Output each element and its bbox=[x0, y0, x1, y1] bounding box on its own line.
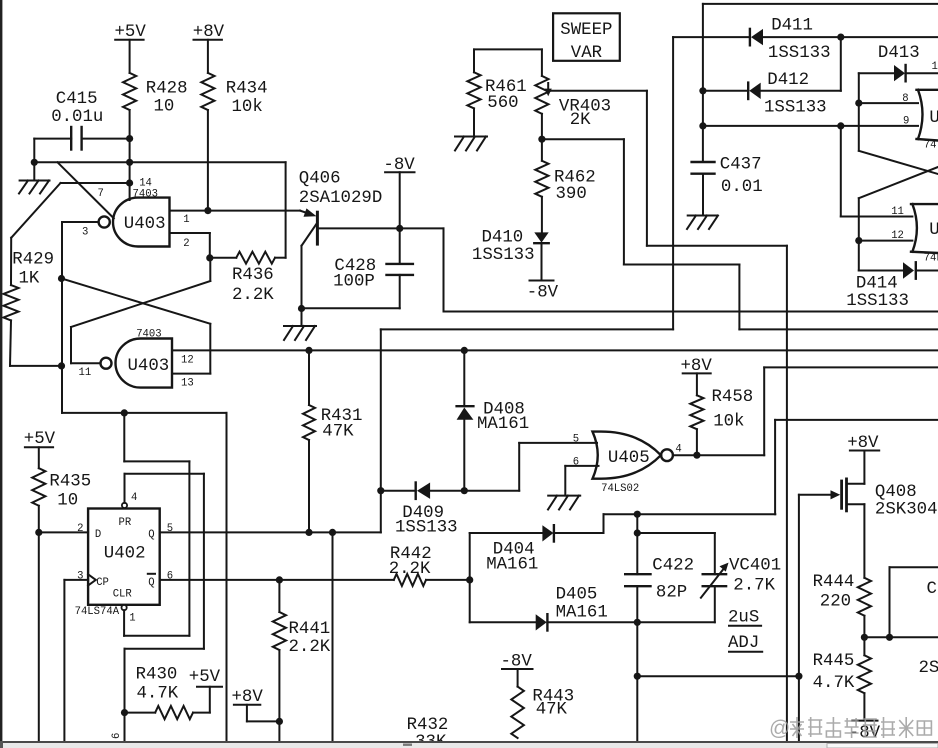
scrollbar area bbox=[0, 741, 938, 748]
svg-text:MA161: MA161 bbox=[477, 415, 529, 434]
svg-text:14: 14 bbox=[932, 61, 938, 73]
wire U403b pin12 long net bbox=[172, 349, 938, 351]
U402 pin5 Q wire bbox=[160, 523, 381, 535]
svg-text:2.7K: 2.7K bbox=[733, 577, 775, 596]
node y676 right bbox=[795, 673, 802, 680]
wire pin12 bbox=[859, 230, 913, 242]
svg-text:VAR: VAR bbox=[571, 44, 602, 63]
node y676 left bbox=[634, 673, 641, 680]
svg-text:C437: C437 bbox=[720, 156, 762, 175]
resistor R435 10 bbox=[32, 468, 91, 510]
resistor R430 4.7K bbox=[125, 666, 210, 720]
svg-text:MA161: MA161 bbox=[556, 604, 608, 623]
svg-text:4.7K: 4.7K bbox=[813, 674, 855, 693]
svg-text:R430: R430 bbox=[136, 666, 178, 685]
svg-text:C422: C422 bbox=[652, 557, 694, 576]
node pin2/R436 bbox=[206, 254, 213, 261]
sheet left border bbox=[0, 0, 2, 741]
svg-text:10: 10 bbox=[57, 492, 78, 511]
svg-text:SWEEP: SWEEP bbox=[560, 21, 612, 40]
power +8V (R458) bbox=[681, 357, 713, 395]
node R444/R445 bbox=[861, 634, 868, 641]
svg-text:U402: U402 bbox=[104, 545, 146, 564]
diode D404 MA161 bbox=[470, 525, 604, 574]
wire pin11 bbox=[841, 126, 913, 218]
watermark bbox=[769, 717, 931, 740]
svg-text:D414: D414 bbox=[856, 275, 898, 294]
svg-text:47K: 47K bbox=[322, 423, 354, 442]
svg-text:390: 390 bbox=[556, 185, 587, 204]
diode D413 1SS133 bbox=[859, 44, 938, 81]
wire cross diag A (right) bbox=[859, 151, 938, 174]
svg-text:Q: Q bbox=[148, 577, 154, 589]
svg-text:R441: R441 bbox=[289, 620, 331, 639]
svg-text:2SK304: 2SK304 bbox=[875, 501, 938, 520]
svg-text:10: 10 bbox=[154, 98, 175, 117]
svg-text:U: U bbox=[929, 109, 938, 128]
svg-text:7403: 7403 bbox=[133, 189, 158, 201]
wire D413 left leg / pin8 stub bbox=[858, 73, 860, 151]
svg-text:D405: D405 bbox=[556, 586, 598, 605]
wire Q408 gate net bbox=[799, 490, 840, 741]
wire VC401 branch top bbox=[637, 533, 715, 574]
node rail/pin9 bbox=[699, 122, 706, 129]
transistor Q406 2SA1029D bbox=[299, 170, 444, 309]
svg-text:R444: R444 bbox=[813, 573, 855, 592]
svg-text:5: 5 bbox=[167, 523, 173, 535]
svg-text:ADJ: ADJ bbox=[728, 634, 759, 653]
node R435/D bbox=[35, 529, 42, 536]
nor-gate U405 (74LS02) bbox=[593, 432, 673, 495]
wire D411 left down to y329 bbox=[381, 37, 673, 491]
node VR403/R462 bbox=[538, 136, 545, 143]
node Q/R431 bbox=[305, 529, 312, 536]
svg-text:2.2K: 2.2K bbox=[289, 638, 331, 657]
resistor R445 4.7K bbox=[813, 652, 871, 721]
svg-text:4: 4 bbox=[675, 444, 681, 456]
diode D412 1SS133 bbox=[703, 37, 841, 117]
node pin3net/pin1loop bbox=[121, 409, 128, 416]
resistor R444 220 bbox=[813, 573, 871, 655]
svg-text:+5V: +5V bbox=[189, 668, 221, 687]
svg-text:1: 1 bbox=[129, 613, 135, 625]
node R430 left bbox=[121, 709, 128, 716]
node pin8 bbox=[855, 100, 862, 107]
flip-flop U402 (74LS74A) bbox=[75, 509, 160, 619]
power -8V (C428) bbox=[383, 156, 415, 264]
svg-text:@: @ bbox=[769, 717, 790, 740]
wire R444 node right bbox=[864, 567, 938, 637]
power +5V (R430) bbox=[189, 668, 222, 713]
resistor R461 560 bbox=[467, 49, 542, 136]
node C415/R428 bbox=[126, 135, 133, 142]
svg-text:U: U bbox=[929, 221, 938, 240]
svg-text:U403: U403 bbox=[124, 215, 166, 234]
svg-text:5: 5 bbox=[573, 434, 579, 446]
nand-gate U403 (7403, top) bbox=[82, 178, 170, 247]
power -8V (D410) bbox=[527, 281, 559, 303]
svg-text:Q: Q bbox=[148, 529, 154, 541]
resistor R458 10k bbox=[690, 388, 753, 455]
power +5V (R428) bbox=[115, 23, 147, 73]
svg-text:12: 12 bbox=[181, 355, 194, 367]
wire collector corner to y311 net bbox=[444, 228, 938, 311]
wire y=183 to R429 bbox=[11, 183, 129, 238]
wire U405 pin5 bbox=[519, 434, 597, 491]
U402 pin6 Qbar wire bbox=[160, 571, 470, 583]
svg-text:3: 3 bbox=[82, 227, 88, 239]
wire R430 node down bbox=[124, 713, 126, 741]
svg-text:9: 9 bbox=[903, 116, 909, 128]
svg-text:VC401: VC401 bbox=[729, 557, 781, 576]
svg-text:1SS133: 1SS133 bbox=[472, 246, 535, 265]
node pin12net/R431 bbox=[305, 347, 312, 354]
svg-text:74L: 74L bbox=[924, 253, 938, 265]
box SWEEP VAR bbox=[553, 13, 620, 63]
node -8V/collector bbox=[396, 225, 403, 232]
svg-text:7: 7 bbox=[98, 188, 104, 200]
wire U405 pin4 output bbox=[673, 367, 938, 455]
svg-text:PR: PR bbox=[119, 517, 132, 529]
node y162/x130 bbox=[126, 159, 133, 166]
resistor R462 390 bbox=[535, 161, 595, 233]
svg-text:R445: R445 bbox=[813, 652, 855, 671]
wire C415 left leg down bbox=[33, 139, 35, 163]
node D411/D412 right bbox=[837, 34, 844, 41]
diode D409 1SS133 bbox=[381, 483, 519, 538]
svg-text:11: 11 bbox=[79, 367, 92, 379]
variable capacitor VC401 2.7K bbox=[701, 557, 781, 623]
ground (C437) bbox=[687, 216, 718, 230]
svg-text:CP: CP bbox=[96, 577, 109, 589]
svg-text:1SS133: 1SS133 bbox=[768, 44, 831, 63]
label R432 33K bbox=[407, 716, 449, 748]
capacitor C437 0.01 bbox=[692, 156, 763, 216]
svg-text:1: 1 bbox=[183, 214, 189, 226]
transistor Q408 2SK304 bbox=[842, 451, 938, 578]
svg-text:1SS133: 1SS133 bbox=[395, 519, 458, 538]
resistor R431 47K bbox=[303, 350, 362, 532]
node pin12net/D408 bbox=[461, 347, 468, 354]
svg-text:CLR: CLR bbox=[113, 589, 133, 601]
node branch x889 bbox=[886, 634, 893, 641]
node D409/D408 bbox=[461, 487, 468, 494]
wire VR403 bottom tap right bbox=[542, 139, 938, 329]
wire VR403 wiper right net bbox=[647, 91, 787, 741]
node Q/x332 bbox=[329, 529, 336, 536]
ground (Q406) bbox=[284, 309, 316, 341]
diode D411 1SS133 bbox=[673, 17, 938, 64]
svg-text:R434: R434 bbox=[226, 80, 268, 99]
svg-text:Q406: Q406 bbox=[299, 170, 341, 189]
node pin1/R434 bbox=[204, 207, 211, 214]
potentiometer VR403 2K bbox=[535, 49, 647, 160]
svg-text:C415: C415 bbox=[56, 90, 98, 109]
svg-text:82P: 82P bbox=[656, 584, 687, 603]
svg-text:C: C bbox=[927, 580, 937, 599]
capacitor C415 0.01u bbox=[34, 90, 129, 150]
node pin12 bbox=[855, 237, 862, 244]
svg-text:U405: U405 bbox=[608, 449, 650, 468]
resistor R429 1K bbox=[4, 238, 62, 366]
svg-text:R435: R435 bbox=[49, 473, 91, 492]
U402 pin3 CP wire bbox=[64, 571, 88, 742]
svg-text:-8V: -8V bbox=[527, 284, 559, 303]
diode D405 MA161 bbox=[470, 586, 715, 631]
svg-text:2.2K: 2.2K bbox=[389, 560, 431, 579]
node D409 left bbox=[377, 487, 384, 494]
node C422 top branch bbox=[634, 529, 641, 536]
wire pin7 diagonal bbox=[58, 162, 114, 218]
svg-text:560: 560 bbox=[487, 94, 518, 113]
node +8V/R441 bbox=[276, 718, 283, 725]
power +8V (R434) bbox=[193, 23, 225, 73]
U402 pin4 PR path bbox=[122, 474, 204, 713]
node pin9/pin11 branch bbox=[837, 122, 844, 129]
or-gate U404a (74LS02, top right) bbox=[917, 90, 938, 152]
svg-text:D: D bbox=[95, 529, 101, 541]
node D412/C437 rail bbox=[699, 87, 706, 94]
power +8V (R441) bbox=[232, 688, 280, 721]
svg-text:100P: 100P bbox=[333, 273, 375, 292]
node y514/C422 bbox=[634, 511, 641, 518]
svg-text:2.2K: 2.2K bbox=[232, 286, 274, 305]
svg-text:D411: D411 bbox=[771, 17, 813, 36]
node Qbar/R441 bbox=[276, 576, 283, 583]
diode D414 1SS133 bbox=[846, 262, 938, 311]
node diagB/pin3net bbox=[58, 275, 65, 282]
svg-text:11: 11 bbox=[891, 206, 904, 218]
wire long vertical x226 bbox=[226, 413, 228, 741]
wire y514 up x775 to y420 right edge bbox=[775, 420, 938, 514]
ground (R461) bbox=[455, 137, 487, 151]
wire D404 up to y514 bbox=[604, 514, 776, 533]
node Qbar/D404 bbox=[466, 576, 473, 583]
wire R435 to D pin and bottom bbox=[38, 506, 40, 741]
svg-text:6: 6 bbox=[167, 571, 173, 583]
wire R434 down to pin1 net bbox=[207, 110, 209, 211]
wire U403a pin2 bbox=[170, 233, 210, 258]
node y183/x130 bbox=[126, 179, 133, 186]
capacitor C422 82P bbox=[625, 514, 694, 622]
svg-text:D412: D412 bbox=[767, 71, 809, 90]
svg-text:1K: 1K bbox=[19, 270, 40, 289]
node ground/wire bbox=[31, 159, 38, 166]
svg-text:4.7K: 4.7K bbox=[137, 685, 179, 704]
wire Qnet up to D409 node bbox=[380, 491, 382, 533]
wire Qbar node vertical bbox=[469, 533, 471, 622]
svg-text:8: 8 bbox=[902, 93, 908, 105]
svg-text:2S: 2S bbox=[919, 659, 938, 678]
svg-text:D410: D410 bbox=[482, 229, 524, 248]
U402 pin1 CLR path bbox=[122, 413, 190, 636]
svg-text:R429: R429 bbox=[12, 251, 54, 270]
wire cross diag B (right) bbox=[859, 167, 938, 271]
wire U403a pin3 (bubble) bbox=[62, 222, 227, 413]
resistor R441 2.2K bbox=[273, 580, 331, 741]
node C422 bottom bbox=[634, 619, 641, 626]
svg-text:0.01u: 0.01u bbox=[51, 108, 103, 127]
svg-text:7403: 7403 bbox=[136, 329, 161, 341]
svg-text:6: 6 bbox=[111, 733, 123, 739]
svg-text:13: 13 bbox=[181, 378, 194, 390]
svg-text:Q408: Q408 bbox=[875, 483, 917, 502]
svg-text:220: 220 bbox=[820, 593, 851, 612]
wire pin8 bbox=[859, 93, 918, 128]
svg-text:6: 6 bbox=[573, 457, 579, 469]
wire top rail y=3.9 bbox=[703, 4, 938, 162]
svg-text:+5V: +5V bbox=[24, 430, 56, 449]
wire net y=162 bbox=[34, 161, 285, 163]
svg-text:10k: 10k bbox=[232, 98, 263, 117]
diode D408 MA161 bbox=[457, 350, 530, 490]
resistor R434 10k bbox=[201, 73, 267, 117]
svg-text:D413: D413 bbox=[878, 44, 920, 63]
svg-text:4: 4 bbox=[131, 492, 137, 504]
nand-gate U403 (7403, bottom) bbox=[79, 329, 194, 390]
svg-text:MA161: MA161 bbox=[486, 556, 538, 575]
svg-text:1SS133: 1SS133 bbox=[846, 292, 909, 311]
svg-text:12: 12 bbox=[891, 230, 904, 242]
svg-text:R428: R428 bbox=[146, 80, 188, 99]
svg-text:3: 3 bbox=[77, 571, 83, 583]
diode D410 1SS133 bbox=[472, 229, 549, 281]
svg-text:2SA1029D: 2SA1029D bbox=[299, 189, 383, 208]
wire x332 down bbox=[332, 532, 334, 741]
wire pin9 net y=125.9 bbox=[703, 125, 918, 127]
svg-text:R458: R458 bbox=[712, 388, 754, 407]
resistor R443 47K bbox=[511, 687, 574, 738]
power -8V (R445) bbox=[849, 721, 881, 743]
node Q406 emitter/C428 bbox=[298, 305, 305, 312]
wire R428 to node bbox=[129, 110, 131, 200]
power +5V (R435) bbox=[24, 430, 56, 468]
wire U403a pin1 out to Q406 base bbox=[170, 208, 317, 226]
ground (C415) bbox=[19, 162, 50, 193]
svg-text:74LS74A: 74LS74A bbox=[75, 606, 120, 618]
svg-text:74: 74 bbox=[924, 140, 937, 152]
wire cross diag A bbox=[71, 258, 210, 363]
svg-text:10k: 10k bbox=[713, 413, 744, 432]
power +8V (Q408) bbox=[847, 434, 879, 453]
svg-text:R436: R436 bbox=[232, 266, 274, 285]
capacitor C428 100P bbox=[302, 257, 413, 308]
resistor R428 10 bbox=[123, 73, 188, 117]
svg-text:0.01: 0.01 bbox=[721, 178, 763, 197]
svg-text:74LS02: 74LS02 bbox=[601, 483, 639, 495]
wire C422 net down / y676 bbox=[637, 622, 799, 741]
label 2uS ADJ bbox=[728, 609, 762, 654]
svg-text:47K: 47K bbox=[536, 701, 568, 720]
resistor R442 2.2K bbox=[389, 545, 432, 586]
svg-text:U403: U403 bbox=[128, 357, 170, 376]
node pin4/R458 bbox=[693, 452, 700, 459]
or-gate U404b (74LS02, right) bbox=[911, 204, 938, 264]
svg-text:1SS133: 1SS133 bbox=[764, 99, 827, 118]
svg-text:2: 2 bbox=[77, 523, 83, 535]
wire U402 pin2 D bbox=[39, 523, 88, 535]
wire U405 pin6 + ground bbox=[548, 457, 599, 510]
svg-text:2uS: 2uS bbox=[728, 609, 759, 628]
node R429/pin3net bbox=[58, 362, 65, 369]
power -8V (R443) bbox=[501, 653, 533, 687]
svg-text:2K: 2K bbox=[570, 111, 591, 130]
wire cross diag B bbox=[62, 279, 211, 374]
svg-text:2: 2 bbox=[183, 238, 189, 250]
resistor R436 2.2K bbox=[210, 162, 286, 305]
